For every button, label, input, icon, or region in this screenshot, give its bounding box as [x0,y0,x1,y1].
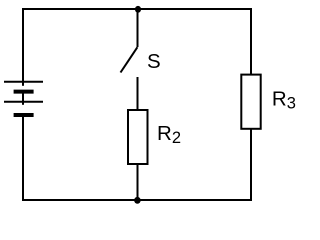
wire middle lower [137,164,139,201]
battery cell 1 long plate [4,81,43,83]
wire right lower [250,130,252,202]
wire middle upper [137,9,139,47]
svg-text:S: S [147,50,161,73]
switch S lever [121,47,138,72]
resistor R3 body [241,75,260,129]
battery cell 2 long plate [4,101,43,103]
wire top [22,8,252,10]
node junction top [135,6,141,13]
battery cell 2 short plate [14,113,34,117]
wire bottom [22,199,252,201]
wire left lower [22,115,24,201]
wire battery internal stub [22,93,24,105]
node junction bottom [134,197,141,204]
wire right upper [250,8,252,74]
wire left upper [22,8,24,86]
wire middle mid [137,77,139,110]
battery cell 1 short plate [14,90,34,94]
resistor R2 body [128,110,148,164]
